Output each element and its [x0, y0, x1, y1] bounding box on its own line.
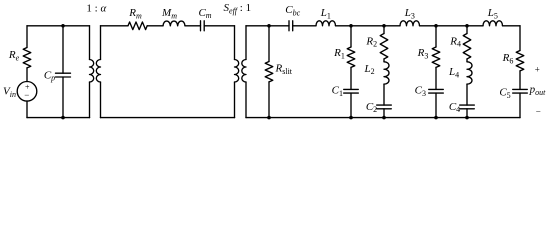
capacitor Cp: [56, 73, 71, 77]
inductor L2: [384, 62, 389, 84]
wire left loop bottom rail: [27, 117, 90, 119]
node branch2 top: [382, 24, 386, 28]
wire Cp upper lead: [62, 26, 64, 73]
transformer T1 secondary winding: [96, 60, 100, 83]
svg-text:R2: R2: [365, 35, 377, 48]
wire R1 to C1: [350, 67, 352, 89]
svg-text:R1: R1: [333, 47, 345, 60]
resistor Rslit: [265, 62, 273, 82]
svg-text:L4: L4: [448, 66, 459, 79]
svg-text:R3: R3: [417, 47, 429, 60]
svg-text:pout: pout: [529, 84, 547, 97]
wire L5 to right corner: [503, 25, 521, 27]
svg-text:+: +: [535, 64, 540, 74]
svg-text:Mm: Mm: [161, 7, 177, 20]
wire R4 to L4: [466, 59, 468, 62]
inductor L4: [467, 62, 472, 84]
wire Cp lower lead: [62, 77, 64, 118]
wire Cbc to L1: [293, 25, 316, 27]
inductor Mm: [163, 21, 185, 26]
inductor L5: [483, 21, 503, 26]
svg-text:Seff : 1: Seff : 1: [224, 2, 252, 15]
wire transformer T2 primary upper lead: [234, 26, 236, 60]
node branch1 bottom: [349, 116, 353, 120]
svg-text:C5: C5: [499, 87, 510, 100]
node branch2 bottom: [382, 116, 386, 120]
resistor R6: [516, 51, 524, 71]
wire transformer T1 secondary upper lead: [100, 26, 102, 60]
resistor Re: [23, 48, 31, 68]
svg-text:C3: C3: [415, 85, 426, 98]
svg-text:Rm: Rm: [128, 7, 142, 20]
node Rslit top: [267, 24, 271, 28]
inductor L3: [400, 21, 420, 26]
wire Vin to bottom rail: [26, 101, 28, 118]
wire middle loop bottom rail: [101, 117, 235, 119]
wire Re to Vin: [26, 68, 28, 82]
wire left loop top rail: [27, 25, 90, 27]
svg-text:Rslit: Rslit: [275, 63, 293, 76]
wire transformer T1 secondary lower lead: [100, 82, 102, 118]
capacitor C5: [513, 89, 528, 93]
svg-text:C2: C2: [366, 101, 377, 114]
wire L1 to L3: [336, 25, 401, 27]
resistor R1: [347, 47, 355, 67]
svg-text:C4: C4: [449, 101, 460, 114]
node Cp top: [61, 24, 65, 28]
wire branch1 upper lead: [350, 26, 352, 47]
node branch1 top: [349, 24, 353, 28]
svg-text:Re: Re: [8, 49, 20, 62]
capacitor Cm: [201, 21, 205, 31]
wire transformer T2 primary lower lead: [234, 82, 236, 118]
wire transformer T2 secondary upper lead: [245, 26, 247, 60]
wire transformer T2 secondary lower lead: [245, 82, 247, 118]
wire Rslit lower lead: [268, 82, 270, 118]
svg-text:L3: L3: [404, 7, 415, 20]
wire Cm to T2: [204, 25, 234, 27]
transformer T2 primary winding: [235, 60, 239, 83]
wire C3 lower lead: [435, 93, 437, 118]
svg-text:−: −: [536, 107, 541, 117]
wire L2 to C2: [383, 84, 385, 105]
svg-text:Cbc: Cbc: [285, 4, 300, 17]
svg-text:C1: C1: [332, 85, 343, 98]
resistor Rm: [128, 22, 147, 30]
node branch3 top: [434, 24, 438, 28]
wire middle loop top rail left: [101, 25, 129, 27]
svg-text:R4: R4: [449, 35, 461, 48]
wire branch3 upper lead: [435, 26, 437, 47]
wire R6 to C5: [519, 71, 521, 90]
wire L3 to L5: [420, 25, 484, 27]
source Vin circle: [17, 82, 37, 102]
inductor L1: [316, 21, 336, 26]
resistor R3: [432, 47, 440, 67]
capacitor C3: [429, 89, 444, 93]
wire R3 to C3: [435, 67, 437, 89]
capacitor C4: [460, 105, 475, 109]
wire Mm to Cm: [185, 25, 201, 27]
wire C2 lower lead: [383, 109, 385, 118]
wire transformer T1 primary upper lead: [89, 26, 91, 60]
wire right bottom rail: [246, 117, 520, 119]
wire C1 lower lead: [350, 93, 352, 118]
wire branch2 upper lead: [383, 26, 385, 34]
transformer T1 primary winding: [90, 60, 94, 83]
svg-text:L2: L2: [363, 63, 374, 76]
svg-text:−: −: [24, 90, 29, 100]
wire L4 to C4: [466, 84, 468, 105]
svg-text:L1: L1: [320, 7, 331, 20]
capacitor C1: [344, 89, 359, 93]
svg-text:L5: L5: [487, 7, 498, 20]
svg-text:Vin: Vin: [3, 86, 16, 99]
resistor R2: [380, 34, 388, 59]
node branch4 bottom: [465, 116, 469, 120]
node Cp bottom: [61, 116, 65, 120]
svg-text:1 : α: 1 : α: [86, 2, 106, 14]
wire Rslit upper lead: [268, 26, 270, 62]
wire transformer T1 primary lower lead: [89, 82, 91, 118]
wire left column upper: [26, 26, 28, 48]
svg-text:Cm: Cm: [198, 7, 211, 20]
wire C5 lower lead: [519, 93, 521, 118]
svg-text:Cp: Cp: [44, 69, 55, 82]
wire C4 lower lead: [466, 109, 468, 118]
wire right top rail T2 to Cbc: [246, 25, 289, 27]
svg-text:R6: R6: [502, 52, 514, 65]
transformer T2 secondary winding: [242, 60, 246, 83]
node Rslit bottom: [267, 116, 271, 120]
wire Rm to Mm: [147, 25, 163, 27]
capacitor C2: [377, 105, 392, 109]
wire branch5 upper lead: [519, 26, 521, 51]
wire branch4 upper lead: [466, 26, 468, 34]
capacitor Cbc: [289, 21, 293, 31]
node branch4 top: [465, 24, 469, 28]
wire R2 to L2: [383, 59, 385, 62]
node branch3 bottom: [434, 116, 438, 120]
resistor R4: [463, 34, 471, 59]
